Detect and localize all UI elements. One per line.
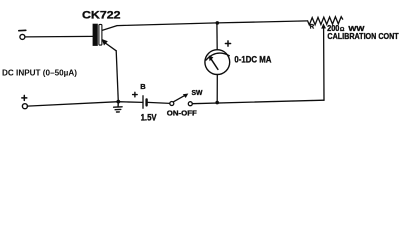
svg-text:ON-OFF: ON-OFF [167,108,197,117]
transistor Q1 CK722 base bar [93,24,98,46]
switch SW [170,102,174,106]
svg-text:CK722: CK722 [82,10,121,22]
resistor R zigzag [308,17,343,25]
minus label [19,29,26,31]
emitter arrow of Q1 [105,43,116,51]
wire: junction down to meter [216,23,218,50]
node: meter bottom junction [215,101,219,105]
input terminal J2 positive [22,104,27,109]
svg-text:B: B [140,82,146,91]
wire: battery to switch [148,102,170,103]
svg-text:SW: SW [192,88,204,97]
meter M1 0-1 DC MA [205,50,230,75]
svg-text:R: R [310,25,315,31]
svg-text:1.5V: 1.5V [141,112,157,122]
svg-text:CALIBRATION CONT: CALIBRATION CONT [327,31,398,41]
top rail wire [117,21,308,26]
wire: meter bottom to rail [216,75,218,102]
node: meter top junction [216,21,220,25]
plus label [22,95,27,100]
wire: emitter down to ground rail [116,51,118,102]
meter plus sign [225,41,230,46]
svg-text:0-1DC MA: 0-1DC MA [234,54,271,64]
node: ground junction [116,100,120,104]
battery B [142,96,144,108]
bottom rail: left section [27,102,143,106]
bottom rail: right section switch to riser [192,100,324,104]
battery plus sign [133,92,138,97]
wire: collector to top rail [103,26,118,31]
wire: input to transistor base [25,35,93,38]
ground symbol [114,102,123,112]
rheostat wiper arrow [323,28,325,101]
input terminal J1 negative [20,34,25,39]
switch lever with arrow [173,95,185,102]
svg-text:DC INPUT (0–50µA): DC INPUT (0–50µA) [2,68,77,77]
